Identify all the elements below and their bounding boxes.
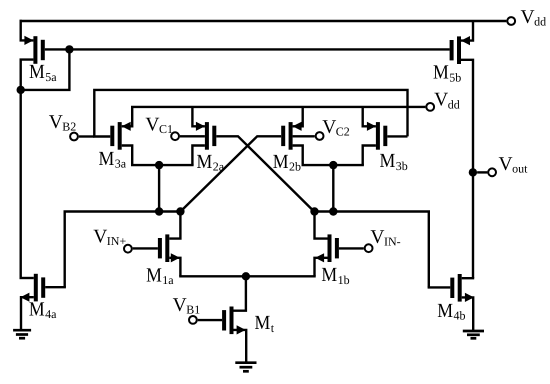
node A1 (left row to drains) [155,207,163,215]
wire VC1 bulk lead to M2a [180,135,205,137]
svg-text:1b: 1b [338,273,350,287]
svg-text:V: V [370,227,384,248]
wire VB2 line (outer top) [94,90,407,137]
svg-text:dd: dd [534,15,546,29]
svg-text:M: M [197,151,213,173]
svg-text:5a: 5a [45,70,57,84]
wire M3a source lead to inner rail [122,107,133,126]
wire M5b source lead from Vdd rail [461,21,473,41]
transistor M2b [281,122,292,150]
svg-text:M: M [437,300,453,322]
arrow M3a source (PMOS) [122,122,131,131]
wire M1b drain lead [315,212,328,239]
label Vdd (inner) [434,90,460,112]
svg-text:M: M [255,312,271,334]
label M2a [197,151,225,174]
ground (M4a source) [13,330,31,338]
arrow M4a source (NMOS) [20,293,29,302]
arrow M1a source (NMOS) [171,253,180,262]
svg-text:2b: 2b [289,160,301,174]
arrow M2a source (PMOS) [196,122,205,131]
terminal Vout [488,168,496,176]
svg-text:M: M [433,62,449,84]
label M3a [99,148,127,171]
svg-text:B1: B1 [186,303,200,317]
transistor M5a [33,36,44,64]
arrow M1b source (NMOS) [315,253,324,262]
node A2 (M1a drain junction) [176,207,184,215]
node M5a drain junction on left bus [17,86,25,94]
transistor M3a [110,122,121,150]
svg-text:4b: 4b [454,309,466,323]
wire inner Vdd rail (cascode sources) [131,106,425,108]
wire M1a drain lead [169,212,180,239]
svg-text:B2: B2 [62,119,76,133]
transistor M2a [205,122,216,150]
wire VB1 lead to Mt gate [198,319,222,321]
wire M5a source lead from Vdd rail [21,20,34,41]
svg-text:M: M [29,61,45,83]
svg-text:dd: dd [448,97,460,111]
wire right cascode drain row [302,164,364,166]
wire M5a drain lead to left bus [21,60,34,278]
terminal VIN+ [124,245,132,253]
node B2 (right row to drains) [329,207,337,215]
wire M1a source lead [169,258,180,277]
label M4a [29,299,57,322]
label M1b [321,264,349,287]
wire M2a gate cross-coupled lead [216,136,314,211]
label M4b [437,300,465,323]
node left cascode drain junction [155,161,163,169]
svg-text:M: M [99,148,115,170]
wire M4b drain lead to output branch [462,277,475,279]
terminal VB2 [70,133,78,141]
arrow M3b source (PMOS) [367,122,376,131]
wire M2a drain lead to left mid node [192,146,205,166]
terminal VC1 [171,132,179,140]
node tail junction [242,272,250,280]
svg-text:C1: C1 [159,122,173,136]
svg-text:M: M [380,150,396,172]
wire M5a diode connection (gate to drain) [21,49,70,90]
wire tail node row [179,275,316,277]
wire M5a gate lead [45,48,70,50]
svg-text:M: M [321,264,337,286]
wire Vdd rail (top) [20,20,507,22]
svg-text:V: V [434,90,448,111]
wire M2b drain lead to right mid node [293,146,303,166]
wire VIN+ lead to M1a gate [133,247,158,249]
transistor M4b [450,274,461,302]
wire M2a source lead to inner rail [192,107,205,126]
wire VIN- lead to M1b gate [339,247,364,249]
label VIN- [370,227,400,249]
wire M1b source lead [315,258,328,277]
wire M3a drain lead to left mid node [122,146,133,166]
wire M3b source lead to inner rail [363,107,376,126]
svg-text:4a: 4a [45,307,57,321]
wire right output node row [313,212,429,288]
wire M4b gate lead from right output node [428,286,451,288]
label Mt [255,312,275,335]
terminal VC2 [316,132,324,140]
label M2b [273,151,301,174]
arrow M2b source (PMOS) [293,122,302,131]
arrow M4b source (NMOS) [465,293,474,302]
wire M2b source lead to inner rail [293,107,303,126]
wire VC2 bulk lead to M2b [293,135,315,137]
label VC1 [145,114,173,136]
label M1a [146,264,174,287]
wire M4a drain lead from left bus [20,277,34,279]
wire Vout lead [477,171,487,173]
wire gate line M5a to M5b [69,48,449,50]
wire M4a source lead to ground [21,297,34,330]
svg-text:V: V [93,227,107,248]
wire Mt drain lead from tail node [234,276,246,310]
wire M3b drain lead to right mid node [363,146,376,166]
svg-text:V: V [145,114,159,135]
wire left node vertical [158,165,160,211]
label M3b [380,150,408,173]
arrow M5a source (PMOS) [24,36,33,45]
svg-text:M: M [29,299,45,321]
arrow M5b source (PMOS) [461,36,470,45]
svg-text:IN-: IN- [384,235,401,249]
wire Mt source lead to ground [234,330,247,363]
svg-text:5b: 5b [449,70,461,84]
svg-text:out: out [512,161,528,175]
svg-text:M: M [146,264,162,286]
transistor M3b [376,122,387,150]
label VC2 [322,117,350,139]
label Vdd (top right) [521,7,547,29]
label VB1 [173,295,201,317]
label M5a [29,61,57,84]
svg-text:C2: C2 [336,124,350,138]
svg-text:M: M [273,151,289,173]
svg-text:V: V [499,154,513,175]
terminal VIN- [365,244,373,252]
wire M3a gate lead from VB2 [93,135,110,137]
node Vout junction [469,168,477,176]
wire M2b gate cross-coupled lead [181,136,282,211]
wire VB2 lead [79,135,95,137]
terminal VB1 [189,316,197,324]
label M5b [433,62,461,85]
svg-text:1a: 1a [162,273,174,287]
svg-text:V: V [173,295,187,316]
ground (M4b source) [463,331,484,338]
arrow Mt source (NMOS) [237,325,246,334]
terminal Vdd (inner) [426,103,434,111]
wire M4b source lead to ground [462,297,474,330]
wire M3b gate lead from VB2 line [387,135,407,137]
node M5a gate-drain junction [65,45,73,53]
node B1 (M1b drain junction) [310,207,318,215]
wire left output node row [65,212,182,288]
wire left cascode drain row [131,164,194,166]
wire M5b drain lead to output branch [461,60,473,278]
svg-text:V: V [521,7,535,28]
transistor M1b [328,234,339,262]
transistor M4a [34,274,45,302]
transistor M1a [158,234,169,262]
svg-text:IN+: IN+ [107,234,127,248]
transistor Mt [222,307,233,335]
label Vout [499,154,529,176]
svg-text:V: V [322,117,336,138]
node right cascode drain junction [329,161,337,169]
svg-text:V: V [49,112,63,133]
label VIN+ [93,227,126,249]
svg-text:3a: 3a [115,157,127,171]
wire M4a gate lead to left output node [45,286,66,288]
label VB2 [49,112,77,134]
ground (tail current source) [235,363,256,372]
wire right node vertical [332,165,334,211]
transistor M5b [450,36,461,64]
svg-text:3b: 3b [396,159,408,173]
terminal Vdd (top right) [507,17,515,25]
